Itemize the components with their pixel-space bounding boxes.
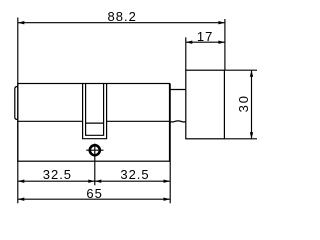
dimension line 32.5 right — [95, 180, 170, 182]
barrel/lug tangent line right segment — [107, 120, 170, 122]
extension line right of body — [169, 84, 171, 204]
dimension line 30 — [251, 70, 253, 139]
arrow 65 right — [164, 198, 171, 201]
dimension line 88.2 — [18, 22, 225, 24]
left end cap — [15, 87, 18, 120]
arrow 32.5 center left-pointing — [95, 180, 102, 183]
svg-text:65: 65 — [86, 186, 102, 201]
arrow 88.2 right — [218, 21, 225, 24]
cam slot outer — [83, 84, 107, 139]
arrow 32.5 center right-pointing — [88, 180, 95, 183]
knob outline — [186, 70, 225, 139]
neck bottom with arc — [170, 121, 186, 122]
svg-text:17: 17 — [197, 29, 213, 44]
svg-text:88.2: 88.2 — [108, 9, 137, 24]
arrow 30 bottom — [250, 132, 253, 139]
neck top — [170, 89, 186, 91]
crosshair horizontal — [86, 149, 103, 151]
cam inner horizontal line — [86, 122, 104, 124]
extension line knob left top — [185, 37, 187, 70]
fixing screw hole circle — [90, 145, 100, 155]
extension line knob right top — [224, 19, 226, 70]
svg-text:30: 30 — [236, 94, 251, 112]
cylinder body outline (65mm barrel silhouette) — [18, 84, 170, 162]
svg-text:32.5: 32.5 — [120, 167, 149, 182]
extension line left master — [17, 18, 19, 204]
arrow 88.2 left — [18, 21, 25, 24]
svg-text:32.5: 32.5 — [43, 167, 72, 182]
extension line knob top horizontal — [224, 69, 257, 71]
dimension line 17 — [186, 41, 225, 43]
arrow 32.5 left outer — [18, 180, 25, 183]
cam inner — [86, 84, 104, 136]
extension line knob bottom horizontal — [224, 138, 257, 140]
arrow 65 left — [18, 198, 25, 201]
extension line center (through screw hole) — [94, 144, 96, 186]
arrow 17 left — [186, 41, 193, 44]
arrow 30 top — [250, 70, 253, 77]
dimension line 32.5 left — [18, 180, 95, 182]
arrow 17 right — [218, 41, 225, 44]
barrel/lug tangent line left segment — [18, 120, 83, 122]
arrow 32.5 right outer — [164, 180, 171, 183]
dimension line 65 — [18, 198, 170, 200]
